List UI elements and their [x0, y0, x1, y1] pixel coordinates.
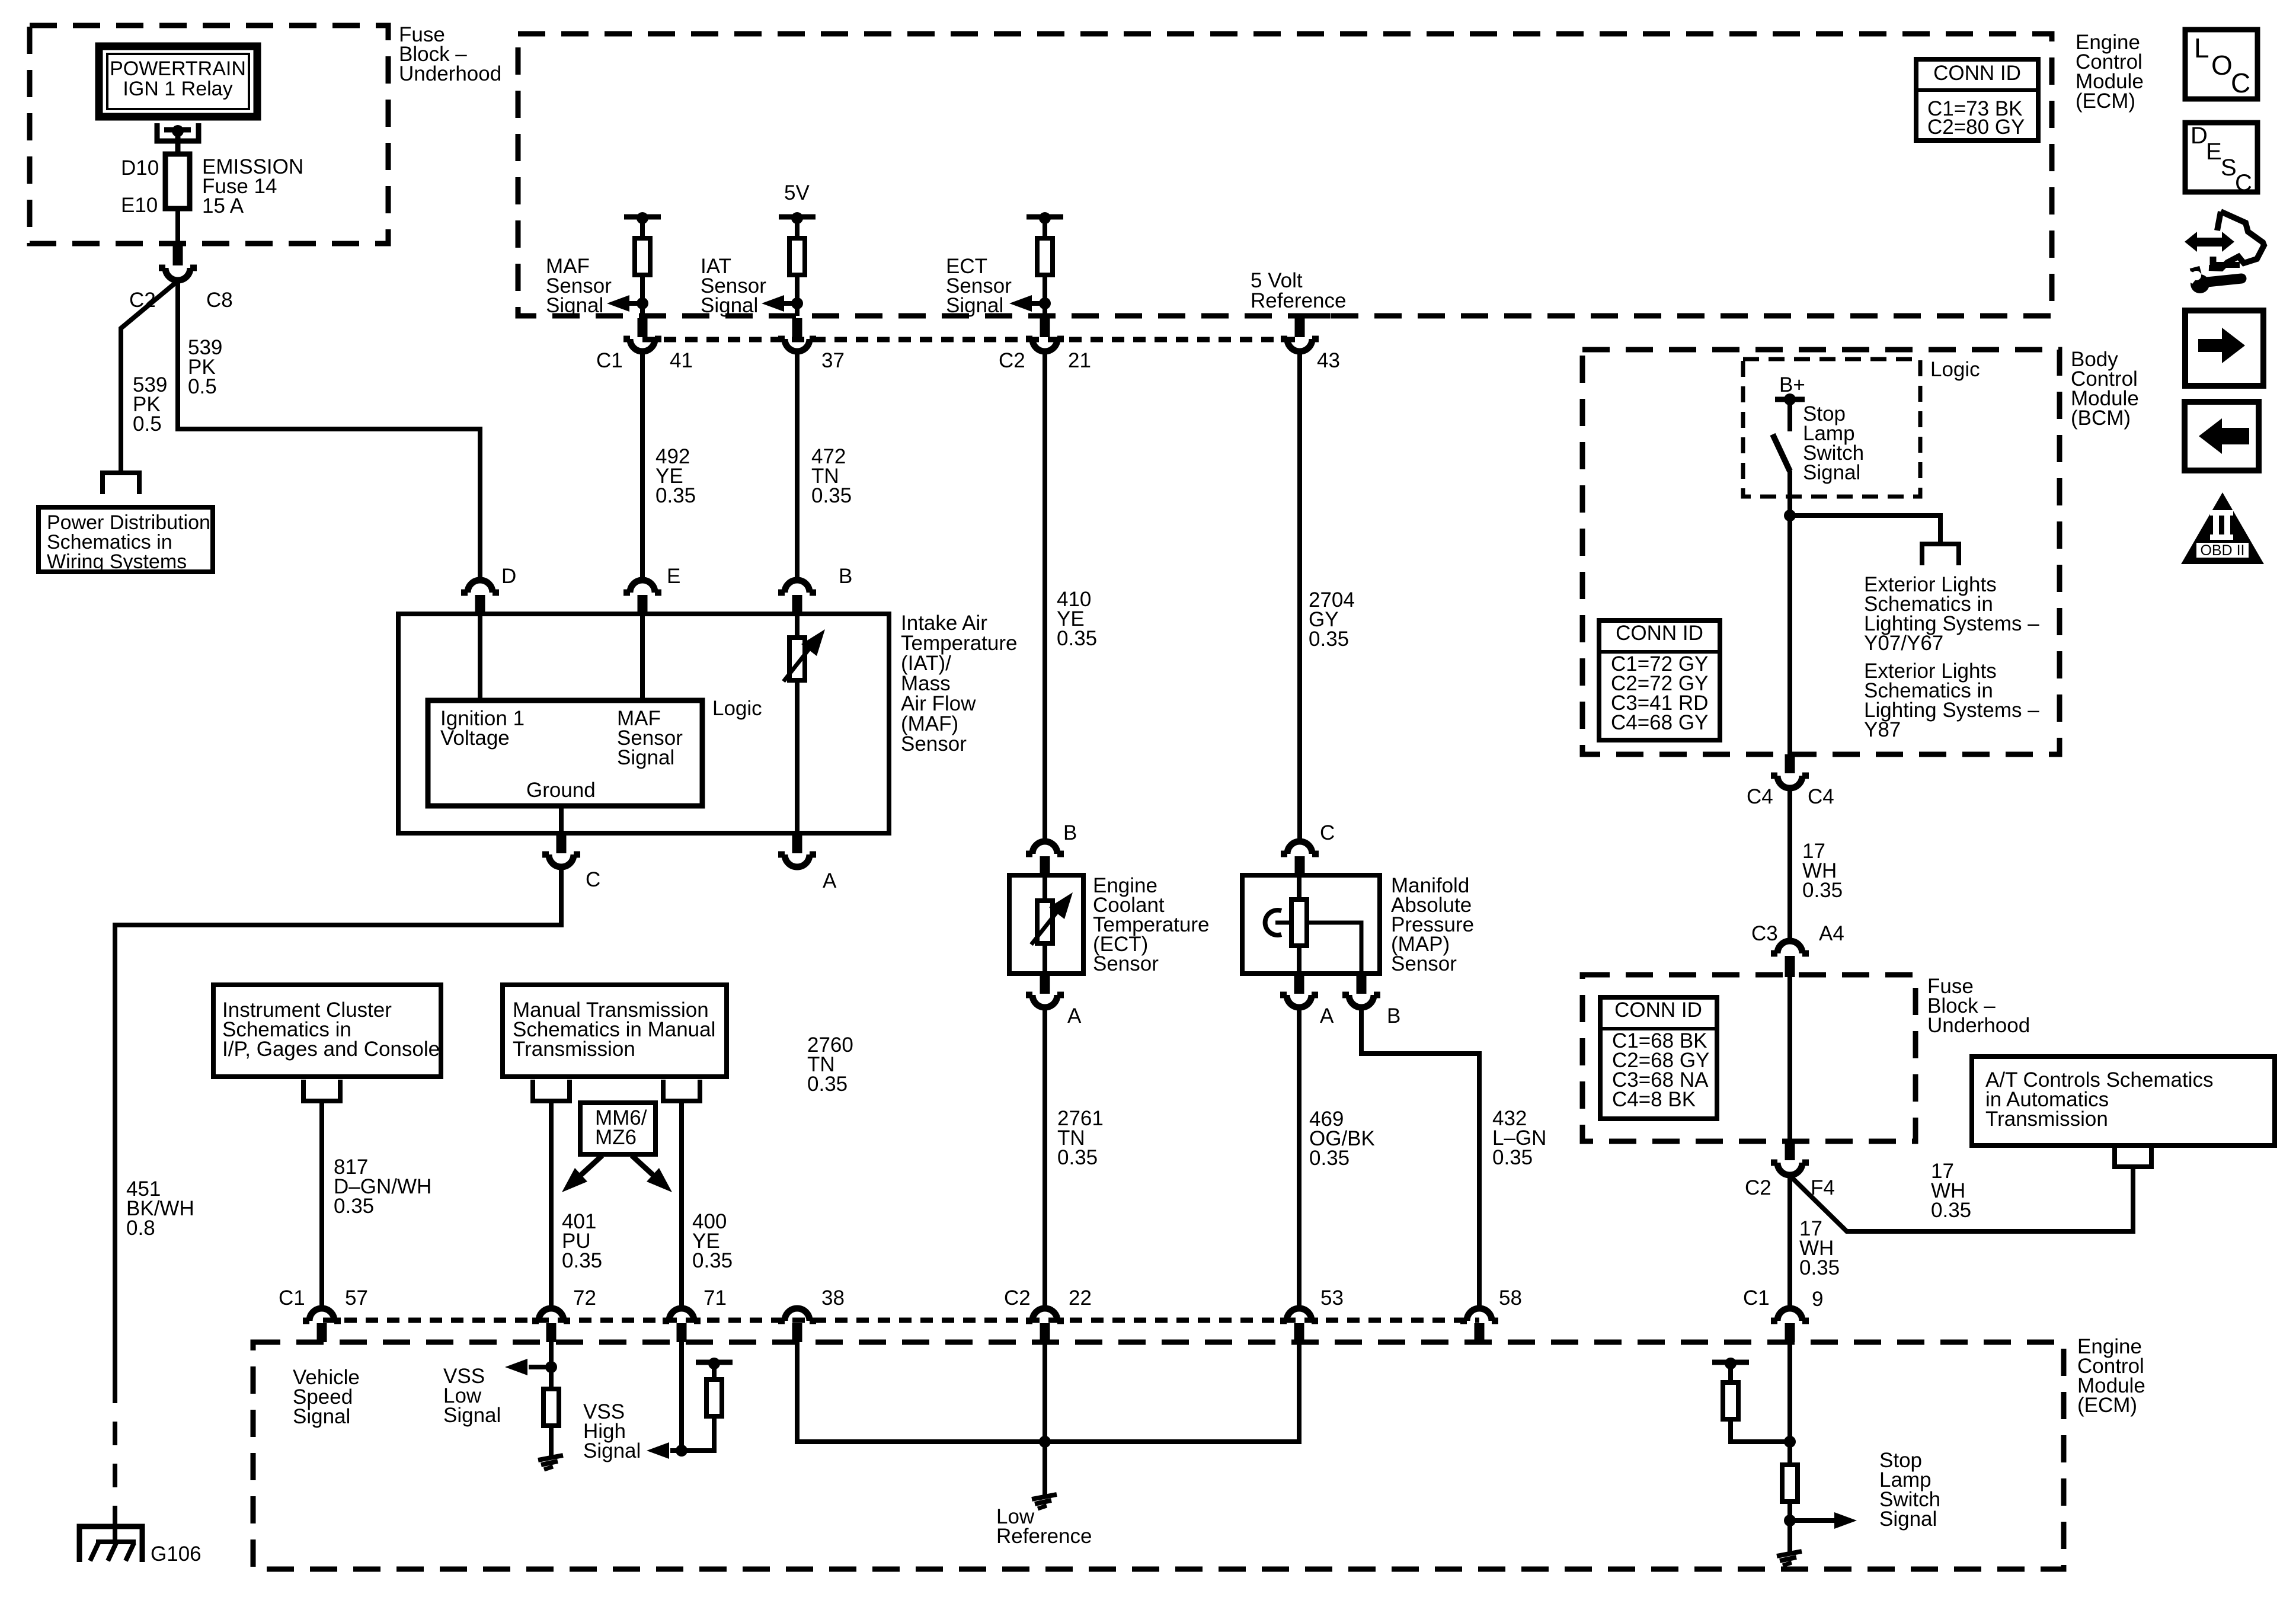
VSS high signal net inside ECM	[647, 1342, 687, 1459]
svg-text:C2: C2	[1004, 1286, 1031, 1310]
fuse block - underhood dashed box (bottom right)	[1582, 975, 1916, 1141]
label pin 9	[1812, 1288, 1823, 1311]
connector cup MAF pin A	[778, 833, 816, 867]
label 410 YE 0.35	[1057, 588, 1097, 650]
label pin 38	[821, 1286, 845, 1310]
MM6/MZ6 designation box	[580, 1103, 655, 1154]
label C1 (pin 9)	[1743, 1286, 1770, 1310]
label Stop Lamp Switch Signal (ECM)	[1879, 1449, 1940, 1531]
label Exterior Lights Y07/Y67	[1864, 573, 2039, 655]
label C4 left	[1747, 785, 1773, 808]
label EMISSION Fuse 14 15 A	[202, 155, 303, 217]
svg-text:E10: E10	[121, 194, 158, 217]
svg-text:22: 22	[1069, 1286, 1092, 1310]
label Fuse Block - Underhood (top left)	[399, 23, 501, 85]
CONN ID table (top ECM)	[1916, 59, 2038, 140]
label pin 43	[1317, 349, 1340, 372]
low reference network inside ECM	[797, 1342, 1299, 1496]
connector cup MAP pin B	[1342, 974, 1380, 1007]
icon DESC box	[2185, 123, 2257, 196]
svg-text:F4: F4	[1811, 1176, 1835, 1199]
label Vehicle Speed Signal	[293, 1366, 360, 1428]
branch to exterior lights	[1790, 516, 1940, 544]
connector cup ECM bottom pin 38	[778, 1308, 816, 1321]
label pin A (ECT)	[1067, 1004, 1082, 1028]
label pin B	[839, 565, 852, 588]
connector cup MAF pin B	[778, 580, 816, 616]
label pin 58	[1499, 1286, 1522, 1310]
label pin D	[501, 565, 516, 588]
CONN ID table (BCM)	[1599, 620, 1720, 740]
label pin 72	[573, 1286, 596, 1310]
Manual Transmission reference box	[503, 985, 727, 1077]
label Engine Coolant Temperature (ECT) Sensor	[1093, 874, 1209, 975]
fuse F14: EMISSION Fuse 14 15 A	[165, 143, 190, 244]
svg-text:Logic: Logic	[712, 697, 762, 720]
svg-text:OBD II: OBD II	[2200, 542, 2244, 559]
label pin 57	[345, 1286, 368, 1310]
svg-text:CONN ID: CONN ID	[1616, 622, 1703, 645]
label pin 37	[821, 349, 845, 372]
label VSS Low Signal	[443, 1365, 501, 1427]
svg-text:EngineControlModule(ECM): EngineControlModule(ECM)	[2076, 31, 2144, 113]
resistor pull-up for MAF signal inside ECM	[624, 212, 661, 316]
connector cup ECM bottom pin 22	[1026, 1308, 1064, 1321]
label Engine Control Module (ECM) top right	[2076, 31, 2144, 113]
fuse block - underhood dashed box (top left)	[30, 25, 388, 244]
wire through fuse block	[1787, 975, 1792, 1141]
label 432 L-GN 0.35	[1492, 1107, 1546, 1169]
connector cup MAF pin D	[461, 580, 499, 616]
connector cup ECM bottom pin 72	[532, 1308, 570, 1321]
wire 539 PK right branch to MAF sensor pin D	[178, 281, 480, 582]
label ECT Sensor Signal (ECM)	[946, 255, 1012, 317]
label 451 BK/WH 0.8	[126, 1177, 194, 1240]
label Body Control Module (BCM)	[2071, 348, 2139, 430]
resistor pull-up for IAT signal inside ECM	[779, 212, 816, 316]
label 5 Volt Reference (ECM)	[1251, 269, 1346, 312]
label C8 (relay)	[206, 289, 233, 312]
connector cup BCM C4	[1771, 754, 1809, 788]
pressure capsule symbol inside MAP box	[1265, 910, 1294, 935]
svg-text:EngineControlModule(ECM): EngineControlModule(ECM)	[2077, 1335, 2145, 1417]
engine control module ECM dashed box (bottom)	[253, 1342, 2064, 1569]
VSS low signal net inside ECM	[505, 1342, 557, 1389]
svg-text:41: 41	[670, 349, 693, 372]
connector cup C2/F4	[1771, 1141, 1809, 1175]
svg-text:Logic: Logic	[1930, 358, 1980, 381]
svg-text:C1=68 BKC2=68 GYC3=68 NAC4=8 B: C1=68 BKC2=68 GYC3=68 NAC4=8 BK	[1612, 1029, 1709, 1111]
svg-text:A: A	[823, 869, 837, 892]
label A4	[1819, 922, 1844, 945]
label MAF Sensor Signal (ECM)	[546, 255, 612, 317]
svg-text:A: A	[1067, 1004, 1082, 1028]
label F4	[1811, 1176, 1835, 1199]
label C4 right	[1808, 785, 1834, 808]
label G106	[151, 1542, 202, 1566]
wire 817 D-GN/WH	[319, 1101, 324, 1307]
label 817 D-GN/WH 0.35	[334, 1156, 431, 1218]
connector stub ECM bottom pin 71	[677, 1323, 687, 1342]
connector cup ECM pin 21	[1026, 339, 1064, 351]
label C1 (ECM top row)	[596, 349, 623, 372]
connector cup ECM pin 41	[623, 339, 661, 351]
svg-text:D: D	[501, 565, 516, 588]
connector cup ECT pin A	[1026, 974, 1064, 1007]
label pin B (MAP)	[1387, 1004, 1400, 1028]
Power Distribution reference box	[39, 507, 213, 573]
wire 469 OG/BK	[1297, 1008, 1302, 1307]
label pin 41	[670, 349, 693, 372]
ground wire inside MAF box	[559, 806, 564, 833]
connector cup C3/A4	[1771, 941, 1809, 977]
bracket to Power Distribution box	[103, 473, 139, 494]
wire 492 YE (MAF signal)	[640, 353, 645, 582]
BCM logic dashed box	[1743, 359, 1920, 497]
label pin 53	[1320, 1286, 1344, 1310]
Instrument Cluster reference box	[213, 985, 441, 1077]
connector cup ECM bottom pin 71	[663, 1308, 701, 1321]
connector cup C2/C8	[159, 268, 197, 280]
svg-text:A4: A4	[1819, 922, 1844, 945]
svg-text:B: B	[1387, 1004, 1400, 1028]
connector stub ECM pin 21	[1040, 318, 1050, 337]
ECT sensor box	[1009, 875, 1083, 974]
label 539 PK 0.5 (right branch)	[188, 336, 222, 398]
label Ignition 1 Voltage	[440, 707, 525, 750]
label 492 YE 0.35	[655, 445, 696, 507]
svg-text:C1: C1	[279, 1286, 305, 1310]
resistor inside MAP box	[1291, 875, 1307, 974]
svg-text:C4: C4	[1808, 785, 1834, 808]
dotted connector line (bottom row)	[323, 1318, 1479, 1323]
label pin A (MAF)	[823, 869, 837, 892]
bracket to exterior lights schematics	[1922, 544, 1959, 565]
svg-text:57: 57	[345, 1286, 368, 1310]
series resistor stop lamp	[1782, 1465, 1798, 1502]
icon right arrow box	[2185, 311, 2263, 386]
label 5V above IAT resistor	[784, 181, 810, 204]
connector cup ECM pin 43	[1281, 339, 1319, 351]
bracket under Manual Transmission box (right)	[663, 1080, 700, 1101]
ECT sensor signal arrow inside ECM	[1009, 295, 1051, 312]
svg-text:C3: C3	[1751, 922, 1778, 945]
wire 472 TN (IAT signal)	[795, 353, 800, 582]
label IAT Sensor Signal (ECM)	[701, 255, 766, 317]
svg-text:CONN ID: CONN ID	[1614, 998, 1702, 1022]
label Stop Lamp Switch Signal (BCM)	[1803, 402, 1864, 484]
bracket under Instrument Cluster box	[303, 1080, 340, 1101]
label pin E	[667, 565, 680, 588]
icon wrench with double arrow	[2184, 212, 2264, 293]
label Ground	[526, 779, 596, 802]
thermistor inside ECT box	[1031, 875, 1073, 974]
MM6 arrow left	[562, 1156, 602, 1192]
svg-text:72: 72	[573, 1286, 596, 1310]
wire 17 WH down to ECM pin 9	[1787, 1176, 1792, 1307]
label C2 (relay)	[129, 289, 156, 312]
icon LOC box	[2185, 30, 2257, 99]
wire 539 PK left branch (diagonal+vertical)	[121, 281, 178, 474]
label 2704 GY 0.35	[1309, 588, 1355, 651]
VSS high resistor branch	[682, 1358, 733, 1451]
label pin 22	[1069, 1286, 1092, 1310]
svg-text:37: 37	[821, 349, 845, 372]
wire 432 L-GN	[1361, 1008, 1479, 1307]
label C2 (ECM top row)	[999, 349, 1025, 372]
svg-text:43: 43	[1317, 349, 1340, 372]
ground G106 symbol	[79, 1512, 142, 1562]
svg-text:B: B	[1063, 821, 1077, 844]
svg-text:C1: C1	[1743, 1286, 1770, 1310]
label 2760 TN 0.35	[807, 1033, 853, 1096]
wire 451 dashed segment	[113, 1379, 117, 1528]
svg-text:POWERTRAINIGN 1 Relay: POWERTRAINIGN 1 Relay	[110, 57, 246, 100]
label Exterior Lights Y87	[1864, 660, 2039, 741]
svg-text:53: 53	[1320, 1286, 1344, 1310]
svg-text:C8: C8	[206, 289, 233, 312]
label pin C (MAP)	[1320, 821, 1335, 844]
wire 2761 TN (low ref from ECT)	[1043, 1008, 1047, 1307]
svg-text:E: E	[667, 565, 680, 588]
connector stub ECM pin 43	[1295, 318, 1305, 337]
svg-text:D10: D10	[121, 156, 159, 180]
connector stub ECM bottom pin 57	[317, 1323, 327, 1342]
connector cup ECM bottom pin 58	[1460, 1308, 1498, 1321]
label Logic (BCM)	[1930, 358, 1980, 381]
svg-text:71: 71	[703, 1286, 727, 1310]
label pin A (MAP)	[1320, 1004, 1334, 1028]
wire from switch to junction	[1784, 470, 1796, 757]
label E10	[121, 194, 158, 217]
svg-text:C: C	[1320, 821, 1335, 844]
svg-text:58: 58	[1499, 1286, 1522, 1310]
svg-text:C1: C1	[596, 349, 623, 372]
wire from MAF pin C to ground run	[115, 868, 561, 1379]
label pin 21	[1068, 349, 1091, 372]
connector cup MAP pin A	[1280, 974, 1318, 1007]
svg-text:5V: 5V	[784, 181, 810, 204]
icon OBD II triangle	[2181, 492, 2264, 564]
wire 17 WH to A/T controls	[1790, 1167, 2133, 1231]
svg-text:B: B	[839, 565, 852, 588]
MM6 arrow right	[632, 1156, 672, 1192]
connector cup MAF pin E	[623, 580, 661, 616]
connector cup ECT pin B	[1026, 841, 1064, 878]
svg-text:C2: C2	[999, 349, 1025, 372]
svg-text:9: 9	[1812, 1288, 1823, 1311]
thermistor IAT inside MAF box	[784, 614, 825, 833]
label 539 PK 0.5 (left branch)	[133, 373, 167, 436]
icon left arrow box	[2185, 402, 2259, 470]
connector stub ECM bottom pin 72	[546, 1323, 557, 1342]
wire E inside MAF box	[640, 614, 645, 700]
connector cup ECM bottom pin 57	[303, 1308, 341, 1321]
label 472 TN 0.35	[811, 445, 852, 507]
label pin 71	[703, 1286, 727, 1310]
label 469 OG/BK 0.35	[1309, 1108, 1375, 1170]
label 400 YE 0.35	[692, 1210, 733, 1272]
svg-text:Ground: Ground	[526, 779, 596, 802]
label C2 (bottom row)	[1004, 1286, 1031, 1310]
connector cup ECM bottom pin 53	[1280, 1308, 1318, 1321]
svg-text:C2: C2	[1745, 1176, 1771, 1199]
svg-text:CONN ID: CONN ID	[1933, 62, 2021, 85]
engine control module ECM dashed box (top)	[518, 34, 2052, 316]
MAF logic box	[428, 700, 702, 806]
label pin B (ECT)	[1063, 821, 1077, 844]
label C1 (bottom row)	[279, 1286, 305, 1310]
pull-up resistor on stop lamp input	[1712, 1358, 1796, 1448]
svg-text:B+: B+	[1779, 373, 1805, 396]
wire 17 WH from BCM to fuse block	[1787, 789, 1792, 940]
VSS low resistor and ground	[538, 1389, 563, 1470]
connector cup ECM pin 37	[778, 339, 816, 351]
relay output pin square receptacle	[157, 123, 199, 153]
wire 2704 GY (5V ref to MAP)	[1297, 353, 1302, 843]
connector stub ECM pin 41	[638, 318, 648, 337]
label MAF Sensor Signal (inside logic)	[617, 707, 683, 769]
svg-text:A: A	[1320, 1004, 1334, 1028]
bracket under Manual Transmission box (left)	[533, 1080, 570, 1101]
label Low Reference	[996, 1505, 1092, 1548]
A/T Controls reference box	[1972, 1057, 2275, 1145]
label D10	[121, 156, 159, 180]
ground at low reference	[1032, 1494, 1057, 1509]
wire 401 PU	[549, 1101, 554, 1307]
label Logic (MAF)	[712, 697, 762, 720]
stop lamp switch symbol	[1773, 399, 1790, 471]
MAP sensor box	[1242, 875, 1380, 974]
label 401 PU 0.35	[562, 1210, 602, 1272]
MAP internal branch to pin B	[1307, 923, 1361, 974]
wire elbow 5 volt reference at ECM boundary	[1300, 313, 1331, 319]
stop lamp wire inside ECM	[1787, 1342, 1792, 1554]
label B+	[1779, 373, 1805, 396]
connector stub ECM pin 37	[792, 318, 802, 337]
label 17 WH 0.35 (first)	[1802, 840, 1843, 902]
connector cup MAF pin C	[542, 833, 580, 867]
body control module BCM dashed box	[1582, 350, 2060, 754]
svg-text:G106: G106	[151, 1542, 202, 1566]
label VSS High Signal	[583, 1400, 641, 1462]
wire 400 YE	[679, 1101, 684, 1307]
svg-text:C4: C4	[1747, 785, 1773, 808]
label pin C	[586, 868, 600, 891]
CONN ID table (fuse block)	[1600, 997, 1717, 1119]
svg-text:38: 38	[821, 1286, 845, 1310]
MAF sensor signal arrow inside ECM	[607, 295, 648, 312]
node B+ bar	[1775, 393, 1805, 405]
connector stub ECM bottom pin 58	[1475, 1323, 1485, 1342]
label Manifold Absolute Pressure (MAP) Sensor	[1391, 874, 1474, 975]
stop lamp signal arrow	[1784, 1512, 1857, 1529]
IAT/MAF sensor box	[398, 614, 889, 833]
relay K: POWERTRAIN IGN 1 Relay box	[99, 46, 257, 117]
wire 410 YE (ECT signal)	[1043, 353, 1047, 843]
svg-text:C: C	[586, 868, 600, 891]
connector stub ECM bottom pin 53	[1294, 1323, 1304, 1342]
resistor pull-up for ECT signal inside ECM	[1027, 212, 1063, 316]
connector stub ECM bottom pin 38	[792, 1323, 802, 1342]
label 17 WH 0.35 (to ECM)	[1799, 1217, 1840, 1279]
connector cup C1/9	[1771, 1308, 1809, 1342]
IAT sensor signal arrow inside ECM	[762, 295, 803, 312]
connector C8 stub at fuse block exit	[173, 244, 183, 265]
svg-text:C1=73 BKC2=80 GY: C1=73 BKC2=80 GY	[1927, 97, 2025, 139]
label Engine Control Module (ECM) bottom right	[2077, 1335, 2145, 1417]
dotted connector line C1/C2 (ECM top row)	[642, 337, 1300, 343]
svg-text:VehicleSpeedSignal: VehicleSpeedSignal	[293, 1366, 360, 1428]
label Intake Air Temperature (IAT)/Mass Air Flow (MAF) Sensor	[901, 612, 1017, 756]
label C2 (F4 cup)	[1745, 1176, 1771, 1199]
label C3	[1751, 922, 1778, 945]
svg-text:C1=72 GYC2=72 GYC3=41 RDC4=68: C1=72 GYC2=72 GYC3=41 RDC4=68 GY	[1611, 652, 1708, 734]
label 17 WH 0.35 (A/T branch)	[1931, 1160, 1971, 1222]
connector stub ECM bottom pin 22	[1040, 1323, 1050, 1342]
ground at stop lamp net	[1777, 1551, 1802, 1566]
bracket under A/T Controls box	[2115, 1145, 2151, 1167]
connector cup MAP pin C	[1281, 841, 1319, 878]
svg-text:21: 21	[1068, 349, 1091, 372]
label 2761 TN 0.35	[1057, 1107, 1104, 1169]
label Fuse Block - Underhood (bottom right)	[1927, 975, 2030, 1037]
wire D inside MAF box	[478, 614, 482, 700]
